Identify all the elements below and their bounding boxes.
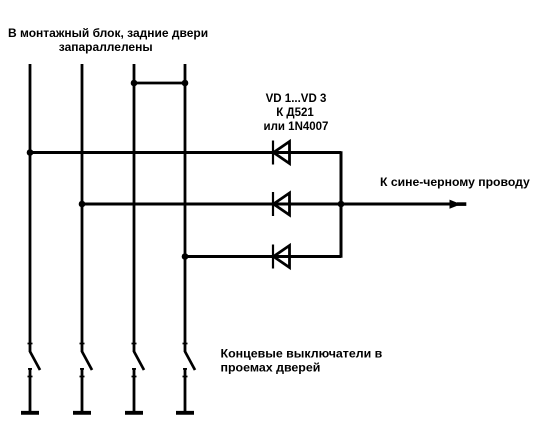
junction J4 (W2/row2)	[79, 201, 86, 208]
svg-text:К сине-черному проводу: К сине-черному проводу	[380, 175, 530, 189]
switch S2 (door 2 limit switch)	[80, 344, 93, 413]
svg-text:Концевые выключатели в: Концевые выключатели в	[221, 347, 383, 361]
arrowhead of output wire (к сине-черному проводу)	[450, 200, 467, 209]
switch S4 (rear door limit switch)	[183, 344, 196, 413]
ground (body) bar under S1	[21, 411, 39, 415]
svg-text:В монтажный блок, задние двери: В монтажный блок, задние двери	[8, 26, 208, 40]
diode VD3	[273, 245, 290, 269]
wire W1 (door 1 feed, vertical)	[29, 64, 32, 352]
svg-text:запараллелены: запараллелены	[59, 40, 153, 54]
wire row 1 (W1 to VD1 anode bus)	[30, 151, 341, 154]
switch S1 (door 1 limit switch)	[28, 344, 41, 413]
label: VD1...VD3 КД521 или 1N4007 (diode values)	[264, 93, 329, 133]
svg-text:проемах дверей: проемах дверей	[221, 361, 321, 375]
switch S3 (rear door limit switch)	[132, 344, 145, 413]
wire W2 (door 2 feed, vertical)	[81, 64, 84, 352]
junction J6 (bus/row2 output)	[338, 201, 345, 208]
wire jumper paralleling rear doors (W3-W4)	[134, 82, 185, 85]
junction J2 (W4/jumper)	[182, 80, 189, 87]
wire cathode bus (right vertical)	[340, 151, 343, 258]
ground (body) bar under S4	[176, 411, 194, 415]
diode VD1	[273, 141, 290, 165]
junction J1 (W3/jumper)	[131, 80, 138, 87]
wire W3 (rear door feed, vertical)	[133, 64, 136, 352]
wire row 3 (W4 to VD3)	[185, 255, 341, 258]
ground (body) bar under S2	[73, 411, 91, 415]
wire row 2 (W2 to VD2 and output arrow)	[82, 203, 460, 206]
label: В монтажный блок, задние двери запараллелены	[8, 26, 208, 54]
label: Концевые выключатели в проемах дверей (switch description)	[221, 347, 383, 375]
wire W4 (rear door feed, vertical)	[184, 64, 187, 352]
svg-text:К Д521: К Д521	[276, 107, 314, 119]
junction J5 (W4/row3)	[182, 253, 189, 260]
junction J3 (W1/row1)	[27, 149, 34, 156]
svg-text:VD 1...VD 3: VD 1...VD 3	[266, 93, 327, 105]
ground (body) bar under S3	[125, 411, 143, 415]
svg-text:или 1N4007: или 1N4007	[264, 121, 329, 133]
diode VD2	[273, 192, 290, 216]
